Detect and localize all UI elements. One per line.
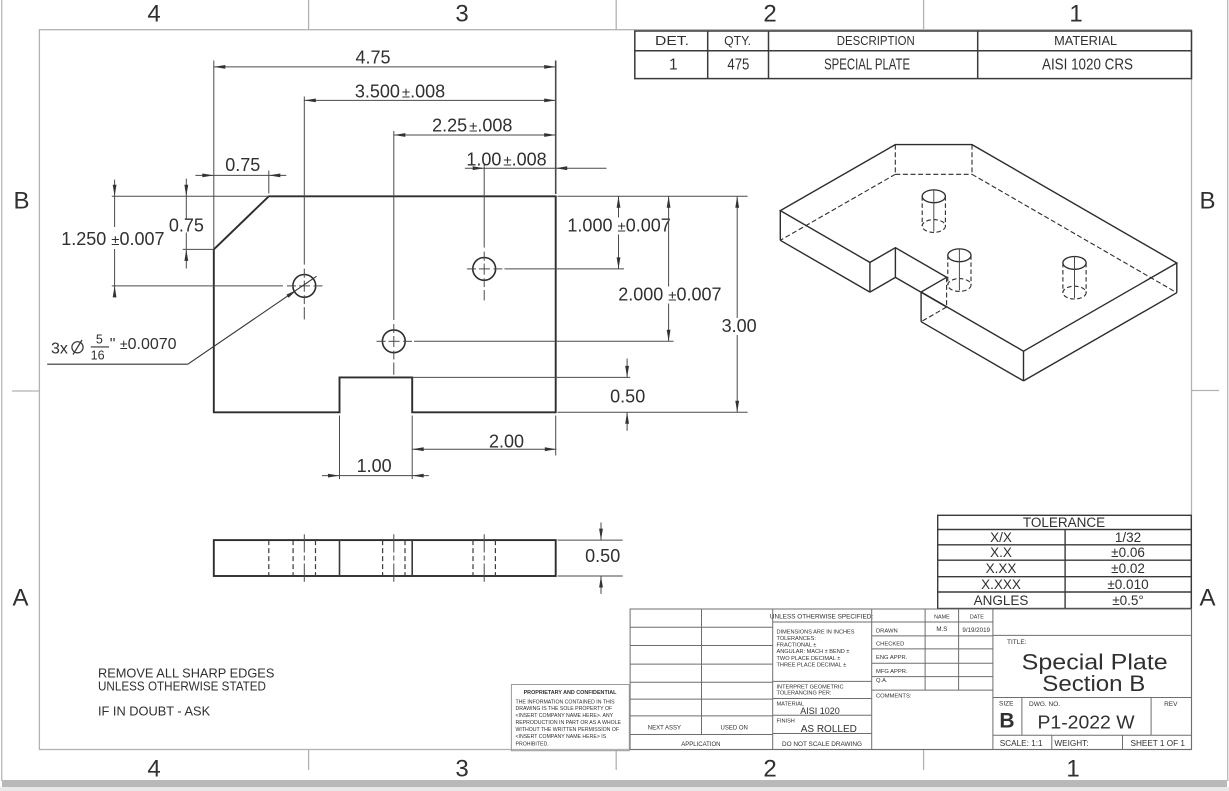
svg-text:AISI 1020 CRS: AISI 1020 CRS: [1042, 57, 1133, 74]
svg-text:A: A: [1199, 585, 1215, 612]
svg-text:±0.02: ±0.02: [1111, 561, 1145, 576]
svg-text:AS ROLLED: AS ROLLED: [801, 724, 857, 735]
svg-text:UNLESS OTHERWISE STATED: UNLESS OTHERWISE STATED: [98, 679, 266, 694]
svg-text:PROHIBITED.: PROHIBITED.: [516, 742, 549, 748]
drawn/checked rows: [872, 621, 993, 623]
svg-text:3x: 3x: [51, 340, 68, 357]
svg-text:TOLERANCE: TOLERANCE: [1023, 515, 1105, 530]
iso hole cylinder A: [922, 189, 945, 232]
iso hidden vertical A: [971, 145, 973, 175]
svg-text:COMMENTS:: COMMENTS:: [876, 694, 912, 700]
svg-text:" ±0.0070: " ±0.0070: [110, 336, 177, 353]
svg-text:4: 4: [147, 756, 160, 783]
notch right edge: [411, 540, 413, 576]
svg-text:THE INFORMATION CONTAINED IN T: THE INFORMATION CONTAINED IN THIS: [516, 699, 616, 705]
svg-text:DWG. NO.: DWG. NO.: [1029, 701, 1060, 708]
proprietary box: [511, 685, 629, 751]
zone tick left B/A: [12, 390, 39, 392]
svg-text:THREE PLACE DECIMAL ±: THREE PLACE DECIMAL ±: [777, 663, 847, 669]
parts table frame: [635, 31, 1192, 79]
iso bottom edge C-B: [1024, 293, 1177, 381]
svg-text:DO NOT SCALE DRAWING: DO NOT SCALE DRAWING: [782, 741, 862, 748]
iso hidden vertical F: [894, 145, 896, 175]
svg-text:2.00: 2.00: [489, 432, 524, 452]
hole A horizontal ext to 1.250 dim: [112, 285, 283, 287]
svg-text:UNLESS OTHERWISE SPECIFIED:: UNLESS OTHERWISE SPECIFIED:: [770, 613, 873, 620]
iso hole cylinder C: [1063, 256, 1086, 299]
iso bottom edge D1-C: [921, 322, 1023, 381]
hole B circle: [382, 330, 405, 353]
iso top face outline: [780, 145, 1177, 352]
iso vertical edge B: [1176, 263, 1178, 293]
svg-text:WEIGHT:: WEIGHT:: [1054, 739, 1088, 748]
iso hidden bottom edge A-B: [972, 174, 1177, 292]
zone tick bottom 4/3: [308, 750, 310, 771]
svg-text:X/X: X/X: [990, 530, 1012, 545]
svg-text:1/32: 1/32: [1115, 530, 1141, 545]
hole A vertical ext to 3.500 dim: [303, 97, 305, 265]
svg-text:X.XXX: X.XXX: [981, 577, 1021, 592]
svg-text:USED ON: USED ON: [721, 725, 748, 731]
side view outline: [214, 540, 556, 576]
svg-text:SIZE: SIZE: [999, 700, 1014, 707]
svg-text:3: 3: [455, 756, 468, 783]
hole A axis: [303, 534, 305, 582]
hole A circle: [293, 275, 316, 298]
svg-text:2.25±.008: 2.25±.008: [432, 116, 512, 136]
svg-text:WITHOUT THE WRITTEN PERMISSION: WITHOUT THE WRITTEN PERMISSION OF: [516, 727, 620, 733]
svg-text:P1-2022 W: P1-2022 W: [1038, 712, 1136, 733]
svg-text:MATERIAL: MATERIAL: [1054, 34, 1117, 48]
page left edge line: [1, 0, 2, 781]
svg-text:±0.010: ±0.010: [1107, 577, 1148, 592]
title block outer frame: [630, 609, 1191, 750]
zone tick top 2/1: [923, 0, 925, 30]
zone tick top 3/2: [615, 0, 617, 30]
svg-text:1.00±.008: 1.00±.008: [466, 149, 546, 169]
svg-text:9/19/2019: 9/19/2019: [962, 627, 990, 634]
hole B center mark: [377, 324, 413, 375]
ext line top edge left (1.250/0.75): [112, 195, 269, 197]
ext line notch right below (1.00/2.00): [411, 416, 413, 480]
iso vertical edge D1: [920, 292, 922, 322]
svg-text:B: B: [1199, 188, 1215, 215]
svg-text:MFG APPR.: MFG APPR.: [876, 669, 908, 675]
hole C vertical ext to 1.00 dim: [483, 165, 485, 248]
hole C center mark: [467, 252, 503, 301]
svg-text:2: 2: [763, 756, 776, 783]
svg-text:FINISH: FINISH: [777, 719, 795, 725]
notch left edge: [339, 540, 341, 576]
svg-text:B: B: [13, 188, 29, 215]
svg-text:<INSERT COMPANY NAME HERE>. A: <INSERT COMPANY NAME HERE>. ANY: [516, 713, 614, 719]
hole B horizontal ext to 2.000 dim: [414, 340, 674, 342]
iso bottom edge E-D4: [780, 240, 870, 292]
svg-text:NAME: NAME: [934, 615, 950, 621]
svg-text:A: A: [12, 585, 28, 612]
middle column rows: [773, 621, 872, 623]
svg-text:B: B: [999, 710, 1014, 733]
svg-text:2.000 ±0.007: 2.000 ±0.007: [618, 284, 721, 304]
svg-text:1: 1: [1066, 756, 1079, 783]
svg-text:TWO PLACE DECIMAL ±: TWO PLACE DECIMAL ±: [777, 656, 841, 662]
svg-text:475: 475: [727, 57, 749, 74]
svg-text:SCALE: 1:1: SCALE: 1:1: [1000, 739, 1043, 748]
iso bottom edge D3-D2: [895, 277, 946, 307]
svg-text:DIMENSIONS ARE IN INCHES: DIMENSIONS ARE IN INCHES: [777, 630, 855, 636]
svg-text:ANGLES: ANGLES: [974, 593, 1029, 608]
size/rev dividers: [1021, 698, 1023, 736]
ext line top edge right (1.000/2.000/3.00): [558, 195, 748, 197]
hole C horizontal ext to 1.000 dim: [505, 268, 625, 270]
plate outline: [214, 196, 556, 412]
iso vertical edge D4: [869, 262, 871, 292]
ext line chamfer bottom left (0.75): [183, 248, 214, 250]
ext line plate left (4.75/0.75): [213, 61, 215, 250]
hole B vertical ext to 2.25 dim: [393, 131, 395, 320]
zone tick bottom 2/1: [923, 750, 925, 771]
iso vertical edge E: [779, 211, 781, 241]
svg-text:0.50: 0.50: [610, 387, 645, 407]
hole B axis: [393, 534, 395, 582]
hole A walls hidden: [292, 540, 294, 576]
svg-text:TITLE:: TITLE:: [1007, 639, 1027, 646]
svg-text:ENG APPR.: ENG APPR.: [876, 655, 908, 661]
svg-text:1.250 ±0.007: 1.250 ±0.007: [61, 229, 164, 249]
ext line plate right below (2.00): [555, 416, 557, 456]
svg-text:DESCRIPTION: DESCRIPTION: [837, 34, 915, 48]
zone tick bottom 3/2: [615, 750, 617, 771]
svg-text:DRAWN: DRAWN: [876, 629, 898, 635]
svg-text:SHEET 1 OF 1: SHEET 1 OF 1: [1131, 739, 1186, 748]
svg-text:FRACTIONAL ±: FRACTIONAL ±: [777, 643, 817, 649]
iso hidden vertical D2: [946, 277, 948, 307]
iso bottom edge D4-D3: [870, 277, 896, 292]
svg-text:4.75: 4.75: [355, 48, 390, 68]
svg-text:5: 5: [96, 332, 103, 346]
iso hidden bottom edge F-E: [780, 174, 895, 240]
svg-text:IF IN DOUBT - ASK: IF IN DOUBT - ASK: [98, 704, 211, 719]
svg-text:1: 1: [669, 57, 678, 74]
svg-text:QTY.: QTY.: [724, 34, 751, 48]
hole C walls hidden: [472, 540, 474, 576]
svg-text:1.000 ±0.007: 1.000 ±0.007: [567, 216, 670, 236]
left section rows: [630, 626, 773, 628]
svg-text:<INSERT COMPANY NAME HERE> IS: <INSERT COMPANY NAME HERE> IS: [516, 734, 607, 740]
svg-text:M.S: M.S: [936, 626, 947, 633]
hole B walls hidden: [382, 540, 384, 576]
ext line notch left below (1.00): [339, 416, 341, 480]
svg-text:3: 3: [455, 1, 468, 28]
svg-text:0.75: 0.75: [225, 155, 260, 175]
svg-text:16: 16: [91, 349, 105, 363]
svg-text:CHECKED: CHECKED: [876, 642, 904, 648]
svg-text:3.00: 3.00: [722, 316, 757, 336]
right section rows: [993, 634, 1192, 636]
iso hidden chamfer bottom F-A: [895, 173, 972, 175]
ext line bottom edge right (3.00/0.50): [558, 411, 748, 413]
svg-text:±0.06: ±0.06: [1111, 545, 1145, 560]
svg-text:AISI 1020: AISI 1020: [800, 706, 840, 716]
svg-text:DRAWING IS THE SOLE PROPERTY O: DRAWING IS THE SOLE PROPERTY OF: [516, 706, 613, 712]
iso vertical edge C: [1023, 351, 1025, 381]
ext line plate right above (4.75..1.00): [555, 61, 557, 195]
svg-text:Section B: Section B: [1042, 671, 1145, 696]
svg-text:0.50: 0.50: [585, 546, 620, 566]
page bottom shadow band: [2, 780, 1227, 787]
iso vertical edge D3: [894, 248, 896, 278]
svg-text:Q.A.: Q.A.: [876, 678, 888, 684]
ext line chamfer corner up (0.75): [268, 171, 270, 194]
svg-text:1: 1: [1069, 1, 1082, 28]
svg-text:X.X: X.X: [990, 545, 1012, 560]
svg-text:NEXT ASSY: NEXT ASSY: [648, 725, 681, 731]
page right edge line: [1227, 0, 1228, 781]
hole C circle: [473, 258, 496, 281]
ext line notch top right (0.50): [412, 376, 630, 378]
svg-text:2: 2: [763, 1, 776, 28]
zone tick right B/A: [1192, 390, 1220, 392]
svg-text:SPECIAL PLATE: SPECIAL PLATE: [824, 57, 910, 74]
svg-text:PROPRIETARY AND CONFIDENTIAL: PROPRIETARY AND CONFIDENTIAL: [524, 690, 618, 696]
svg-text:1.00: 1.00: [357, 456, 392, 476]
svg-text:REV: REV: [1164, 701, 1178, 708]
svg-text:0.75: 0.75: [169, 215, 204, 235]
hole C axis: [483, 534, 485, 582]
svg-text:REPRODUCTION IN PART OR AS A W: REPRODUCTION IN PART OR AS A WHOLE: [516, 720, 622, 726]
svg-text:INTERPRET GEOMETRIC: INTERPRET GEOMETRIC: [777, 685, 844, 691]
chamfer hidden edge: [268, 540, 270, 576]
scale row dividers: [1051, 735, 1053, 749]
svg-text:APPLICATION: APPLICATION: [681, 742, 720, 748]
iso hole cylinder B: [948, 248, 971, 291]
svg-text:TOLERANCES:: TOLERANCES:: [777, 636, 817, 642]
svg-text:DATE: DATE: [970, 615, 984, 621]
svg-text:DET.: DET.: [655, 34, 689, 48]
svg-text:4: 4: [147, 1, 160, 28]
svg-text:ANGULAR: MACH ± BEND ±: ANGULAR: MACH ± BEND ±: [777, 649, 850, 655]
iso hidden bottom edge D2-D1: [921, 307, 947, 322]
svg-text:X.XX: X.XX: [986, 561, 1017, 576]
hole A center mark: [287, 269, 323, 320]
svg-text:TOLERANCING PER:: TOLERANCING PER:: [777, 691, 832, 697]
svg-text:±0.5°: ±0.5°: [1112, 593, 1144, 608]
left section verticals: [701, 609, 703, 735]
title block texts: [648, 613, 1186, 748]
zone tick top 4/3: [308, 0, 310, 30]
